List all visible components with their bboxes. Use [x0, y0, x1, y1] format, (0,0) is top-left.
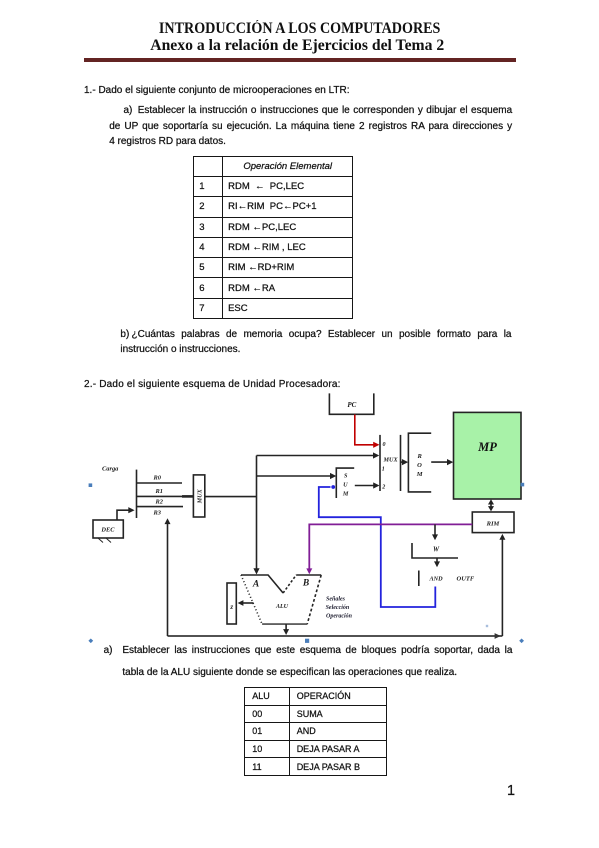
- svg-text:R2: R2: [155, 499, 164, 506]
- memory MP: [454, 412, 522, 499]
- register R1: [137, 488, 194, 497]
- register file input bar: [136, 470, 138, 518]
- wire PC to MUX2 input 0 (red): [355, 415, 380, 448]
- svg-text:U: U: [343, 481, 348, 488]
- svg-text:Carga: Carga: [102, 466, 119, 473]
- register PC: [329, 393, 373, 414]
- svg-text:Operación: Operación: [326, 614, 353, 620]
- svg-text:S: S: [344, 472, 348, 479]
- wire SUM output to MUX2 input 2: [355, 482, 380, 488]
- mux MUX2: [380, 435, 401, 491]
- rom ROM: [408, 433, 431, 492]
- svg-text:DEC: DEC: [100, 527, 115, 534]
- wire ALU output to bus: [283, 624, 289, 635]
- table microoperaciones: [193, 156, 353, 319]
- svg-text:RIM: RIM: [486, 521, 500, 528]
- wire purple to flag W: [432, 524, 438, 540]
- page number: [507, 784, 515, 799]
- svg-text:OUTF: OUTF: [457, 576, 475, 583]
- title line 1: [0, 20, 599, 37]
- wire MP to RIM (bidirectional): [488, 499, 494, 511]
- title rule: [84, 58, 517, 61]
- svg-text:0: 0: [383, 442, 386, 448]
- svg-text:Selección: Selección: [326, 605, 350, 611]
- svg-text:M: M: [416, 471, 423, 478]
- wire MUX1 output to junction: [205, 496, 257, 498]
- svg-text:R3: R3: [153, 509, 162, 516]
- alu ALU trapezoid: [241, 575, 321, 624]
- svg-text:R0: R0: [153, 475, 162, 482]
- mux MUX1: [193, 475, 204, 517]
- svg-text:ALU: ALU: [275, 604, 289, 610]
- register RIM: [472, 512, 514, 533]
- svg-text:MUX: MUX: [196, 488, 203, 504]
- wire ROM to MP: [431, 459, 453, 465]
- adder SUM: [336, 468, 354, 498]
- wire bus to RIM (right feedback): [499, 534, 505, 636]
- wire RIM to ALU B (purple): [306, 524, 472, 574]
- svg-text:O: O: [417, 462, 422, 469]
- svg-text:Señales: Señales: [326, 596, 346, 602]
- svg-text:A: A: [252, 580, 259, 590]
- svg-text:W: W: [433, 547, 440, 554]
- svg-text:AND: AND: [429, 576, 444, 583]
- bus ALU output (bottom): [168, 633, 503, 639]
- register R2: [137, 499, 184, 507]
- svg-text:MUX: MUX: [383, 457, 399, 464]
- svg-text:z: z: [229, 603, 233, 611]
- paragraph b): [120, 328, 129, 341]
- svg-text:R: R: [417, 453, 423, 460]
- paragraph 1: [84, 84, 350, 97]
- gate AND: [419, 571, 475, 587]
- wire MUX2 to ROM: [401, 459, 409, 465]
- svg-text:MP: MP: [477, 440, 497, 454]
- svg-text:PC: PC: [347, 401, 356, 409]
- svg-text:2: 2: [381, 485, 385, 491]
- flag W: [412, 543, 458, 558]
- paragraph a) bottom: [104, 644, 113, 657]
- wire AND output to SUM (blue): [319, 485, 436, 607]
- label Señales Selección Operación: [326, 596, 353, 619]
- selection handles (blue): [88, 483, 524, 643]
- node junction vertical to ALU A: [253, 456, 259, 575]
- wire bus to register file (left feedback): [165, 518, 171, 636]
- table ALU: [244, 687, 386, 776]
- flag Z: [227, 583, 236, 624]
- svg-text:R1: R1: [155, 488, 163, 495]
- decoder DEC: [93, 520, 123, 543]
- svg-text:M: M: [342, 490, 349, 497]
- wire registers to MUX2 input 1: [257, 452, 380, 458]
- title line 2: [0, 37, 599, 54]
- svg-text:B: B: [302, 579, 309, 589]
- paragraph 2: [84, 378, 341, 391]
- svg-text:1: 1: [382, 467, 385, 473]
- paragraph a) item 1: [124, 104, 133, 117]
- wire W to AND: [434, 558, 440, 567]
- register R0: [137, 475, 183, 484]
- wire DEC to register bar: [117, 507, 135, 520]
- wire junction to SUM: [257, 473, 337, 479]
- wire ALU to Z: [238, 600, 254, 606]
